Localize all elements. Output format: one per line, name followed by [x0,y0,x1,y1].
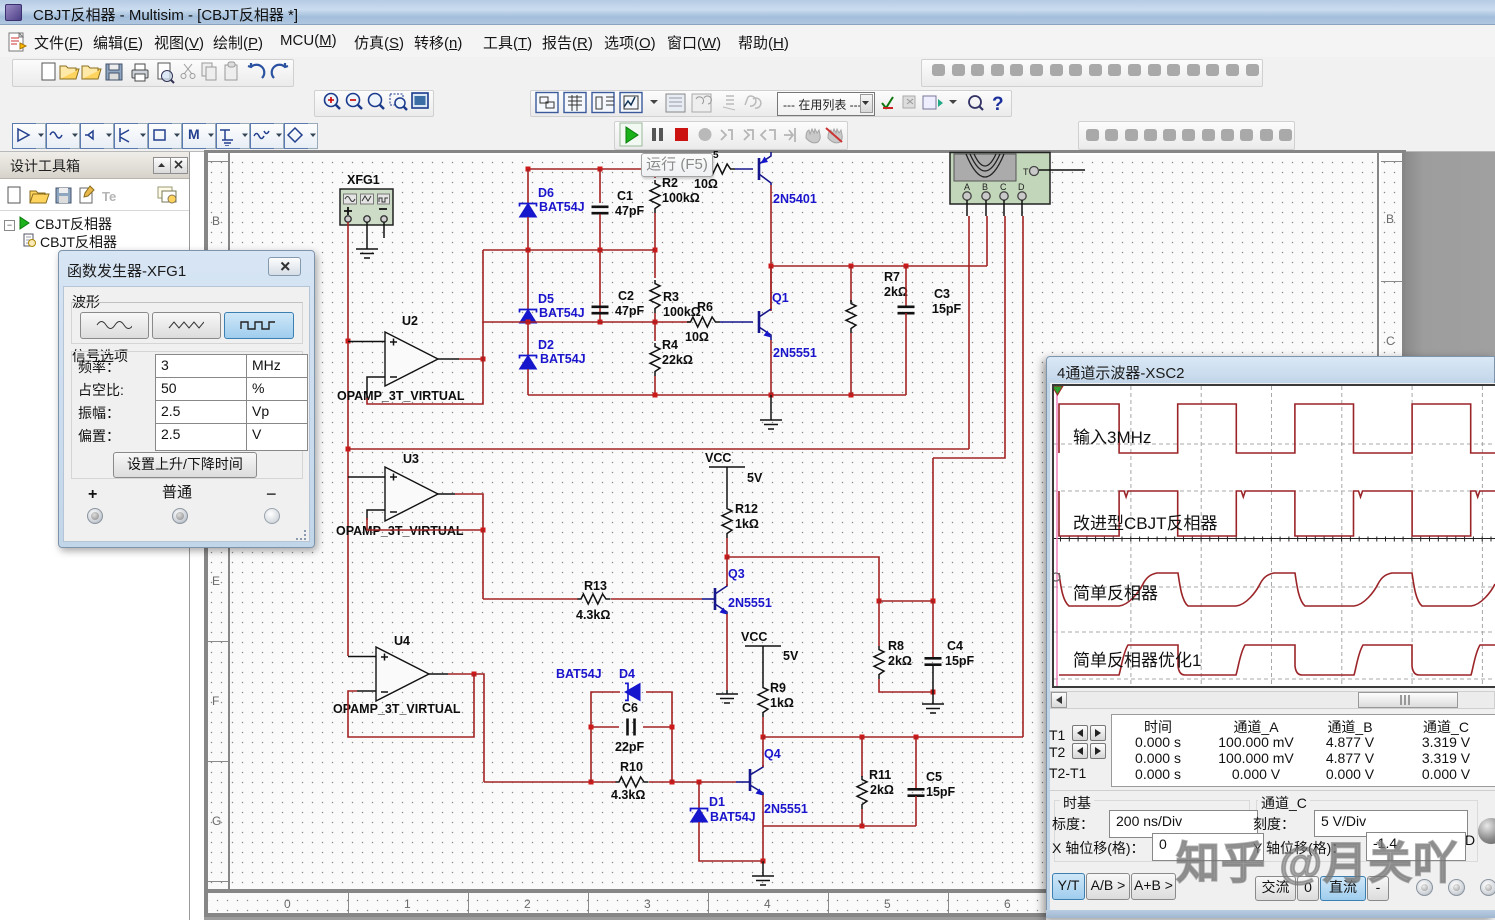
resistor R6 10ohm [687,317,720,327]
svg-text:2kΩ: 2kΩ [888,654,912,668]
wire U2 out [459,358,483,360]
wire R8 bottom to C4 [879,679,933,692]
svg-text:R9: R9 [770,681,786,695]
diode D5 BAT54J [520,310,537,324]
scope trace channel D (simple inverter optimized) [1059,645,1495,675]
svg-text:BAT54J: BAT54J [539,200,585,214]
wire top rail y169 left part [528,168,703,170]
junction R10 box left [589,780,594,785]
svg-text:C6: C6 [622,701,638,715]
svg-text:简单反相器优化1: 简单反相器优化1 [1073,651,1201,670]
svg-text:BAT54J: BAT54J [539,306,585,320]
wire rail y601 [879,600,933,602]
wire Q1 collector to scope B [771,265,987,267]
svg-text:4.3kΩ: 4.3kΩ [611,788,645,802]
wire R11 top lead [861,737,863,777]
wire Q1 emitter to ground [770,395,772,420]
junction Q4 collector node [761,735,766,740]
diode D6 BAT54J [520,204,537,218]
wire rail y395 [528,394,906,396]
wire box right side + D4 right [646,692,672,782]
resistor R13 4.3k [578,594,611,604]
ground Q4 [752,876,774,885]
svg-text:R10: R10 [620,760,643,774]
junction x655/y250 [653,248,658,253]
wire U3 out down to R13 [482,530,484,599]
svg-text:2N5401: 2N5401 [773,192,817,206]
svg-text:15pF: 15pF [945,654,975,668]
svg-text:100kΩ: 100kΩ [662,191,700,205]
svg-text:U2: U2 [402,314,418,328]
svg-text:15pF: 15pF [932,302,962,316]
svg-text:C3: C3 [934,287,950,301]
svg-text:T: T [1023,167,1029,177]
resistor R9 1k [758,684,768,717]
svg-text:R13: R13 [584,579,607,593]
svg-text:D: D [1018,182,1025,192]
wire R7 bottom lead [850,333,852,395]
capacitor C2 47pF [592,307,609,313]
svg-text:2kΩ: 2kΩ [884,285,908,299]
junction x600/y250 [598,248,603,253]
wire U4 inverting input [357,690,376,692]
wire Q3 collector up [726,557,728,586]
power VCC (lower, 5V) [745,646,781,684]
svg-text:Q1: Q1 [772,291,789,305]
svg-text:A: A [964,182,970,192]
junction C6 right node [670,725,675,730]
svg-text:10Ω: 10Ω [694,177,718,191]
capacitor C1 47pF [592,207,609,213]
svg-text:OPAMP_3T_VIRTUAL: OPAMP_3T_VIRTUAL [336,524,464,538]
op-amp U3 [385,467,438,521]
junction y266/x906 [904,264,909,269]
junction y601/x879 [877,599,882,604]
resistor R10 4.3k [616,777,649,787]
svg-text:47pF: 47pF [615,204,645,218]
svg-text:C5: C5 [926,770,942,784]
junction Q4 emitter gnd node [761,859,766,864]
junction C6 left node [589,725,594,730]
svg-text:U4: U4 [394,634,410,648]
wire U4 output stub [429,673,448,675]
scope trace channel A (input 3MHz square wave) [1059,404,1495,453]
junction U4 out node [472,672,477,677]
junction y826/x862 [860,824,865,829]
svg-text:VCC: VCC [741,630,767,644]
wire C4 top lead [932,601,934,658]
wire R13 to Q3 base [611,598,702,600]
wire XFG1 minus stub [383,222,385,238]
resistor R4 22k [650,343,660,376]
svg-text:2N5551: 2N5551 [764,802,808,816]
junction x348/U2+ [346,339,351,344]
capacitor C3 15pF [898,307,915,313]
instrument XSC2 oscilloscope icon [950,153,1050,205]
svg-text:R3: R3 [663,290,679,304]
junction Q3 collector node [725,555,730,560]
svg-text:2N5551: 2N5551 [728,596,772,610]
scope cursor T1 [1056,386,1058,686]
junction x600/y322 [598,320,603,325]
wire R7 top lead [850,266,852,302]
wire R2-R3 link [654,213,656,278]
svg-text:10Ω: 10Ω [685,330,709,344]
junction x655/y322 [653,320,658,325]
wire x528 seg1 [527,169,529,203]
wire scope terminal stubs [967,200,1022,216]
wire Q1 emitter down [770,340,772,395]
wire U4 out to R10 row [448,674,484,782]
wire C6 left lead [591,726,619,728]
svg-text:C1: C1 [617,189,633,203]
wire R5 to 2N5401 base [735,168,753,170]
svg-text:OPAMP_3T_VIRTUAL: OPAMP_3T_VIRTUAL [337,389,465,403]
svg-text:R11: R11 [869,768,891,782]
scope trace channel B (improved CBJT inverter) [1059,491,1495,536]
op-amp U4 [376,647,429,701]
svg-text:C2: C2 [618,289,634,303]
wire R13 left lead [483,598,578,600]
wire R12 bottom lead [726,538,728,557]
svg-text:输入3MHz: 输入3MHz [1073,428,1151,447]
svg-text:D1: D1 [709,795,725,809]
junction C4 gnd node [931,690,936,695]
wire R3-R4 link [654,313,656,341]
wire Q4 collector up [762,737,764,767]
wire C6 right lead [643,726,672,728]
svg-text:Q4: Q4 [764,747,781,761]
junction y737/x862 [860,735,865,740]
wire x528 seg3 [527,323,529,355]
junction y395/x655 [653,393,658,398]
wire R9 bottom lead [762,717,764,737]
wire XSC2 trigger stub [1039,169,1085,171]
resistor R3 100k [650,280,660,313]
svg-text:2kΩ: 2kΩ [870,783,894,797]
wire rail y250 [483,249,655,251]
ground Q3 [716,694,738,703]
svg-text:1kΩ: 1kΩ [735,517,759,531]
diode D4 BAT54J (horizontal) [625,683,640,700]
power VCC (upper, 5V) [709,467,745,505]
wire R4 bottom lead [654,376,656,395]
junction D1 top node [697,780,702,785]
svg-text:22pF: 22pF [615,740,645,754]
svg-text:BAT54J: BAT54J [540,352,586,366]
transistor Q4 2N5551 (NPN) [750,765,763,796]
wire U4 feedback loop [348,674,474,737]
wire rail y322 [483,321,690,323]
wire R10 to Q4 base [649,781,736,783]
ground XFG1 [356,249,378,258]
svg-text:改进型CBJT反相器: 改进型CBJT反相器 [1073,514,1218,533]
wire C3 bottom lead [905,313,907,395]
svg-text:R4: R4 [662,338,678,352]
junction R10 box right [670,780,675,785]
op-amp U2 [385,332,438,386]
scope trace channel C (simple inverter) [1059,573,1495,606]
junction y395/x771 [769,393,774,398]
svg-text:C: C [1000,182,1007,192]
capacitor C6 22pF [628,719,635,736]
junction y266/x851 [849,264,854,269]
wire R8 top lead [878,601,880,646]
wire R11 bottom lead [861,809,863,826]
wire Q3 emitter down [726,614,728,690]
wire x528 seg2 [527,217,529,309]
wire C col x933 upper [932,458,934,601]
wire C3 top lead [905,266,907,307]
svg-text:简单反相器: 简单反相器 [1073,584,1158,603]
ground Q1 [760,420,782,429]
wire C1 top lead [599,169,601,203]
svg-text:U3: U3 [403,452,419,466]
svg-text:D4: D4 [619,667,635,681]
junction x348/y449 [346,447,351,452]
svg-text:R7: R7 [884,270,900,284]
svg-text:XFG1: XFG1 [347,173,380,187]
wire rail y737 [763,736,1023,738]
wire R6 to Q1 base [720,321,753,323]
junction y737/x916 [914,735,919,740]
resistor R12 1k [722,505,732,538]
wire scope A wire x969 [968,216,970,449]
resistor R2 100k [650,180,660,213]
junction y169/x600 [598,167,603,172]
svg-text:BAT54J: BAT54J [710,810,756,824]
junction y601/x933 [931,599,936,604]
wire rail y826 [763,825,916,827]
svg-text:47pF: 47pF [615,304,645,318]
wire U3 inverting input [367,510,385,520]
junction y266/x771 [769,264,774,269]
wire U2 out up x483 [482,250,484,359]
wire D1 top lead [698,782,700,808]
junction U3 fb corner [481,528,486,533]
wire R10 left lead [484,781,616,783]
junction y169/x528 [526,167,531,172]
svg-text:R6: R6 [697,300,713,314]
wire U2 inverting input [367,377,385,399]
svg-text:4.3kΩ: 4.3kΩ [576,608,610,622]
wire D1 bottom to gnd node [699,822,763,861]
transistor Q3 2N5551 (NPN) [715,584,727,615]
wire Q4 emitter down [762,795,764,861]
wire C1-C2 column [599,214,601,322]
transistor 2N5401 (PNP, top) [759,152,771,185]
diode D2 BAT54J [520,356,537,370]
wire C5 top lead [915,737,917,789]
svg-text:22kΩ: 22kΩ [662,353,693,367]
wire U2 output stub [438,358,459,360]
svg-text:D5: D5 [538,292,554,306]
junction y395/x851 [849,393,854,398]
resistor R5 10ohm (horizontal, top) [702,164,735,174]
svg-text:2N5551: 2N5551 [773,346,817,360]
wire XFG1 common to ground [366,222,368,249]
wire 2N5401-Q1 link x771 [770,185,772,311]
wire U3 output stub [437,493,455,495]
wire U2 feedback loop [367,359,483,404]
wire scope D wire x1023 [1022,216,1024,737]
transistor Q1 2N5551 (NPN) [759,308,771,340]
wire C5 bottom lead [915,796,917,826]
wire Q1 collector up join [770,266,772,309]
wire scope B wire x987 [986,216,988,266]
svg-text:5: 5 [713,150,719,161]
junction x528/y250 [526,248,531,253]
junction x528/y322 [526,320,531,325]
svg-text:5V: 5V [783,649,799,663]
svg-text:BAT54J: BAT54J [556,667,602,681]
svg-text:D6: D6 [538,186,554,200]
svg-text:C4: C4 [947,639,963,653]
svg-text:B: B [982,182,988,192]
svg-text:1kΩ: 1kΩ [770,696,794,710]
wire scope C wire [933,216,1005,458]
svg-text:5V: 5V [747,471,763,485]
wire x528 seg4 [527,369,529,395]
instrument XFG1 function generator icon [340,189,393,225]
svg-text:R2: R2 [662,176,678,190]
svg-text:15pF: 15pF [926,785,956,799]
svg-text:Q3: Q3 [728,567,745,581]
resistor R7 2k [846,300,856,333]
wire box left side + D4 left [591,692,620,782]
junction U2 out node [481,357,486,362]
svg-text:100kΩ: 100kΩ [663,305,701,319]
ground C4 [922,704,944,713]
svg-text:R8: R8 [888,639,904,653]
wire rail y449 input to scope A [348,448,969,450]
svg-text:VCC: VCC [705,451,731,465]
svg-text:D2: D2 [538,338,554,352]
wire R2 top stub [654,169,656,178]
wire U3 feedback loop [367,494,483,530]
svg-text:OPAMP_3T_VIRTUAL: OPAMP_3T_VIRTUAL [333,702,461,716]
wire XFG1+ down x348 [347,222,349,656]
wire collector to R8 [727,557,879,601]
svg-text:R12: R12 [735,502,758,516]
